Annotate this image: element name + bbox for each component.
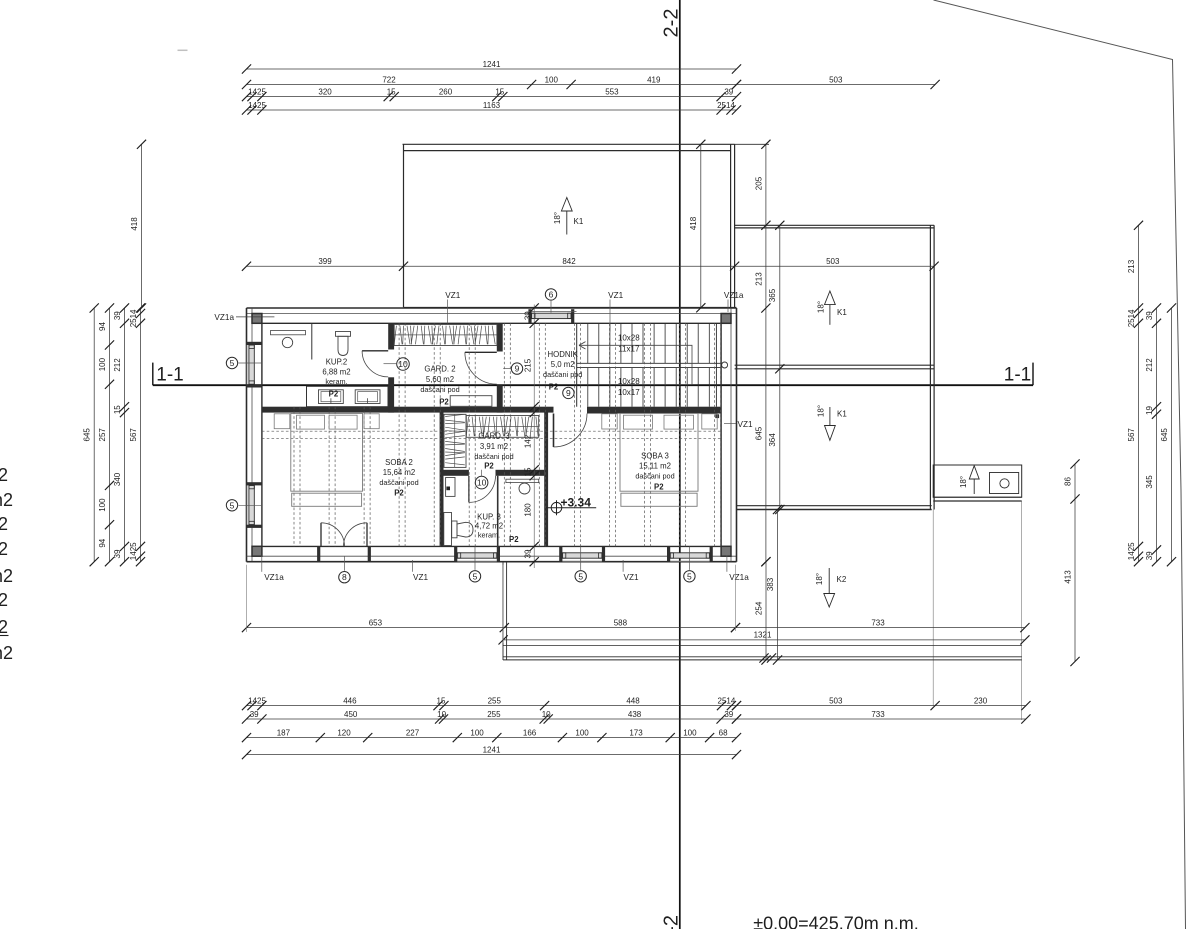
right wall drain circle xyxy=(722,362,728,368)
room label KUP2 xyxy=(322,358,350,387)
svg-text:503: 503 xyxy=(829,696,843,705)
KUP2 washer xyxy=(319,390,344,404)
dim row 653-588 bottom xyxy=(242,618,740,632)
svg-text:1163: 1163 xyxy=(483,101,501,110)
svg-text:567: 567 xyxy=(1127,428,1136,442)
terrace bottom double edge xyxy=(503,657,1022,660)
svg-text:645: 645 xyxy=(83,428,92,442)
dim row 399-842-503 xyxy=(242,257,939,271)
dim col 254 terrace xyxy=(754,557,770,665)
dim row A bottom right xyxy=(732,696,1031,710)
label VZ1a bottom left xyxy=(262,556,284,583)
legend fragment 4 xyxy=(0,539,8,559)
svg-text:2: 2 xyxy=(0,514,8,534)
window top 6 exterior sill xyxy=(529,310,577,312)
legend fragment 1 xyxy=(0,465,8,485)
legend fragment 2 xyxy=(0,490,13,510)
legend fragment 8 xyxy=(0,643,13,663)
svg-text:446: 446 xyxy=(343,696,357,705)
balloon 5 left upper xyxy=(226,357,262,368)
svg-text:8: 8 xyxy=(342,572,347,582)
window bottom 3 (balloon 5) xyxy=(667,546,713,561)
roof arrow K1 annex upper xyxy=(817,291,848,325)
svg-text:503: 503 xyxy=(826,257,840,266)
balcony double door 8 right leaf xyxy=(366,523,368,547)
svg-text:9: 9 xyxy=(515,364,520,374)
svg-text:5: 5 xyxy=(473,571,478,581)
KUP2 mirror shelf xyxy=(271,331,306,335)
section label 1-1 right xyxy=(1004,365,1031,386)
room label P2 KUP3 xyxy=(509,535,519,544)
roof projection dashed vertical lines xyxy=(294,323,721,546)
svg-text:205: 205 xyxy=(754,176,763,190)
svg-text:1-1: 1-1 xyxy=(1004,365,1031,386)
room label P2 GARD3 xyxy=(484,461,494,470)
svg-text:39: 39 xyxy=(523,311,532,320)
GARD2 dresser xyxy=(450,396,492,407)
dim row 722-100-419 xyxy=(242,75,741,89)
staircase right boundary xyxy=(715,323,717,406)
svg-text:2-2: 2-2 xyxy=(661,9,683,38)
balloon 8 balcony door xyxy=(339,556,350,583)
extension line plan bottom left corner xyxy=(246,565,248,632)
svg-text:842: 842 xyxy=(562,257,576,266)
dim row C bottom xyxy=(242,728,741,742)
svg-text:2: 2 xyxy=(0,590,8,610)
svg-text:120: 120 xyxy=(337,728,351,737)
wall corner block top left xyxy=(252,314,262,324)
staircase risers xyxy=(588,323,710,406)
svg-text:daščani pod: daščani pod xyxy=(543,370,582,379)
label VZ1 bottom 2 xyxy=(623,560,639,582)
legend fragment 3 xyxy=(0,514,8,534)
svg-text:15: 15 xyxy=(387,87,396,96)
dim row inner face top xyxy=(242,101,741,115)
roof K2 annex bottom double edge xyxy=(737,506,932,510)
svg-text:18°: 18° xyxy=(553,212,562,224)
door 10 KUP3 swing arc xyxy=(469,476,496,503)
door 9 GARD2 swing arc xyxy=(465,352,497,384)
svg-text:255: 255 xyxy=(488,696,502,705)
svg-text:VZ1a: VZ1a xyxy=(724,291,744,300)
svg-text:213: 213 xyxy=(1127,259,1136,273)
svg-text:320: 320 xyxy=(318,87,332,96)
dim col layers right xyxy=(1127,221,1143,567)
balloon 5 bottom 1 xyxy=(469,547,480,583)
svg-text:1425: 1425 xyxy=(129,542,138,560)
window left upper (balloon 5) xyxy=(247,342,262,388)
svg-text:2: 2 xyxy=(0,539,8,559)
door 10 KUP2 swing arc xyxy=(362,351,388,377)
svg-text:413: 413 xyxy=(1063,570,1072,584)
wall corner block bottom left xyxy=(252,546,262,556)
dim row 503 top right xyxy=(732,75,940,89)
svg-text:227: 227 xyxy=(406,728,420,737)
svg-text:10: 10 xyxy=(477,478,487,488)
roof arrow K1 annex lower xyxy=(817,405,848,440)
extension line terrace left xyxy=(502,565,504,643)
dim col rooms left xyxy=(113,303,129,566)
svg-text:15: 15 xyxy=(113,405,122,414)
roof K1 left edge xyxy=(403,144,405,307)
terrace upper edge line xyxy=(503,645,1022,647)
section line 1-1 horizontal xyxy=(153,363,1033,386)
dim col 645 right xyxy=(1160,303,1176,566)
svg-text:daščani pod: daščani pod xyxy=(420,385,459,394)
svg-text:15: 15 xyxy=(437,696,446,705)
legend fragment 6 xyxy=(0,590,8,610)
label VZ1 bottom 1 xyxy=(412,560,428,582)
svg-text:1241: 1241 xyxy=(483,60,501,69)
dim col 645 left xyxy=(83,303,99,566)
svg-text:9: 9 xyxy=(566,388,571,398)
svg-text:215: 215 xyxy=(523,358,532,372)
wall KUP2-GARD2 lower segment xyxy=(388,386,394,413)
room label GARD2 xyxy=(420,365,459,394)
SOBA2 nightstand right xyxy=(364,414,379,429)
svg-text:2: 2 xyxy=(0,617,8,637)
svg-text:P2: P2 xyxy=(484,461,494,470)
svg-text:2514: 2514 xyxy=(129,309,138,327)
staircase walk line with arrow xyxy=(579,342,692,385)
wall GARD3-SOBA3 vertical xyxy=(544,412,548,546)
room label HODNIK xyxy=(543,350,582,379)
dim col 205-213-645 xyxy=(754,140,770,567)
balcony double door 8 left leaf xyxy=(320,523,322,547)
svg-text:39: 39 xyxy=(724,710,733,719)
svg-text:260: 260 xyxy=(439,87,453,96)
svg-text:10x28: 10x28 xyxy=(618,333,640,342)
svg-text:1425: 1425 xyxy=(248,87,266,96)
svg-text:keram.: keram. xyxy=(325,377,347,386)
wall GARD3-KUP3 horizontal xyxy=(444,470,545,476)
svg-text:10x17: 10x17 xyxy=(618,388,640,397)
svg-text:10: 10 xyxy=(542,710,551,719)
svg-text:K1: K1 xyxy=(574,217,584,226)
svg-text:VZ1: VZ1 xyxy=(608,291,623,300)
svg-text:15: 15 xyxy=(495,87,504,96)
svg-text:SOBA 3: SOBA 3 xyxy=(641,451,669,460)
svg-text:567: 567 xyxy=(129,428,138,442)
svg-text:GARD. 3: GARD. 3 xyxy=(478,432,509,441)
room label GARD3 xyxy=(474,432,513,462)
window top 6 jambs xyxy=(528,309,574,323)
svg-text:P2: P2 xyxy=(654,483,664,492)
svg-text:39: 39 xyxy=(1145,311,1154,320)
balloon 10 KUP2 door xyxy=(384,358,410,371)
svg-text:254: 254 xyxy=(754,601,763,615)
KUP2 toilet xyxy=(336,332,351,356)
roof K1 eave bottom edge xyxy=(404,306,737,308)
section line 2-2 vertical xyxy=(679,0,681,929)
wall exterior left inner line xyxy=(261,323,263,546)
dim row B bottom xyxy=(242,710,741,724)
svg-text:m2: m2 xyxy=(0,566,13,586)
svg-text:daščani pod: daščani pod xyxy=(474,452,513,461)
svg-text:39: 39 xyxy=(523,549,532,558)
label VZ1 right wall xyxy=(724,420,753,429)
wall GARD2-HODNIK upper segment xyxy=(497,323,503,351)
glass partition KUP3 xyxy=(497,476,499,547)
svg-text:4,72 m2: 4,72 m2 xyxy=(475,522,503,531)
KUP2 washbasin circle xyxy=(282,337,292,347)
svg-text:VZ1: VZ1 xyxy=(445,291,460,300)
legend fragment 7 xyxy=(0,617,9,637)
svg-text:m2: m2 xyxy=(0,643,13,663)
svg-text:18°: 18° xyxy=(815,573,824,585)
wall horizontal corridor-south right part xyxy=(587,407,721,414)
newel post xyxy=(715,414,719,418)
svg-text:100: 100 xyxy=(545,75,559,84)
svg-text:5: 5 xyxy=(230,500,235,510)
dim col rooms right xyxy=(1145,303,1161,566)
staircase flight separation lines xyxy=(577,363,721,367)
svg-text:15,11 m2: 15,11 m2 xyxy=(639,461,671,470)
dim col layers left xyxy=(129,303,145,566)
svg-text:1425: 1425 xyxy=(248,696,266,705)
svg-text:2514: 2514 xyxy=(717,101,735,110)
svg-text:39: 39 xyxy=(113,311,122,320)
dim col 418 right xyxy=(689,140,705,313)
wall exterior bottom outer line xyxy=(247,561,737,563)
svg-text:18°: 18° xyxy=(959,476,968,488)
svg-text:588: 588 xyxy=(614,618,628,627)
wall exterior right outer line xyxy=(736,308,738,562)
legend fragment 5 xyxy=(0,566,13,586)
svg-text:39: 39 xyxy=(724,87,733,96)
dim row B bottom right xyxy=(732,710,1031,724)
svg-text:5: 5 xyxy=(578,571,583,581)
roof K2 annex right double edge xyxy=(930,225,934,509)
roof K1 eave extension right xyxy=(735,143,769,145)
svg-text:212: 212 xyxy=(1145,358,1154,372)
svg-text:2: 2 xyxy=(0,465,8,485)
svg-text:VZ1a: VZ1a xyxy=(264,573,284,582)
room label P2 SOBA2 xyxy=(394,489,404,498)
KUP2 counter xyxy=(307,386,389,406)
svg-text:15: 15 xyxy=(523,467,532,476)
dim row 1241 top xyxy=(242,60,741,74)
dim col 418 left xyxy=(130,140,146,313)
terrace break marks xyxy=(759,653,776,662)
svg-text:100: 100 xyxy=(575,728,589,737)
elevation marker +3.34 xyxy=(546,495,596,515)
terrace left double edge xyxy=(503,562,507,660)
label VZ1a top right xyxy=(724,291,744,312)
balloon 9 GARD2 door xyxy=(503,363,523,374)
dim row wall layout top xyxy=(242,87,741,101)
extension line from roof corner down xyxy=(932,510,934,707)
wall KUP2-GARD2 door stub xyxy=(388,377,394,385)
svg-text:733: 733 xyxy=(871,618,885,627)
KUP3 low cabinet xyxy=(444,513,452,546)
wall exterior left layer line xyxy=(251,308,253,562)
svg-text:18°: 18° xyxy=(817,405,826,417)
svg-text:6: 6 xyxy=(549,289,554,299)
GARD2 wardrobe hatched xyxy=(394,325,497,346)
balloon 5 bottom 2 xyxy=(575,547,586,583)
wall exterior top layer line xyxy=(247,313,737,315)
SOBA3 nightstand left xyxy=(602,414,617,429)
svg-text:230: 230 xyxy=(974,696,988,705)
room label P2 KUP2 xyxy=(329,390,339,399)
svg-text:257: 257 xyxy=(98,428,107,442)
svg-text:383: 383 xyxy=(766,577,775,591)
roof K2 annex mid double edge xyxy=(735,365,935,369)
svg-text:HODNIK: HODNIK xyxy=(548,350,579,359)
svg-text:100: 100 xyxy=(470,728,484,737)
svg-text:10x28: 10x28 xyxy=(618,377,640,386)
svg-text:448: 448 xyxy=(626,696,640,705)
svg-text:2514: 2514 xyxy=(1127,309,1136,327)
svg-text:86: 86 xyxy=(1063,477,1072,486)
svg-text:2-2: 2-2 xyxy=(661,915,683,929)
svg-text:1425: 1425 xyxy=(248,101,266,110)
svg-text:2514: 2514 xyxy=(718,696,736,705)
GARD3 wardrobe top hatched xyxy=(466,416,538,438)
window bottom 1 (balloon 5) xyxy=(454,546,500,561)
wall corner block bottom right xyxy=(721,546,731,556)
svg-text:722: 722 xyxy=(382,75,396,84)
svg-text:5: 5 xyxy=(230,358,235,368)
dim col 365-364 xyxy=(768,221,784,514)
svg-text:212: 212 xyxy=(113,358,122,372)
svg-text:±0.00=425.70m n.m.: ±0.00=425.70m n.m. xyxy=(753,914,918,929)
dim row 733 bottom xyxy=(731,618,1030,632)
svg-text:187: 187 xyxy=(277,728,291,737)
label VZ1a top left xyxy=(214,313,274,322)
svg-text:VZ1: VZ1 xyxy=(738,420,753,429)
svg-text:10: 10 xyxy=(398,359,408,369)
extension line from chimney down xyxy=(1021,501,1023,720)
chimney slope arrow 18deg xyxy=(959,466,979,494)
svg-text:653: 653 xyxy=(369,618,383,627)
dim row 1321 bottom xyxy=(499,631,1030,645)
balcony double door 8 right arc xyxy=(344,523,368,547)
label VZ1 top 1 xyxy=(445,291,460,324)
KUP3 vanity counter xyxy=(506,479,539,482)
dim col windows left xyxy=(98,303,114,566)
svg-text:5,0 m2: 5,0 m2 xyxy=(551,360,575,369)
balloon 6 top window xyxy=(545,289,556,313)
window bottom 2 (balloon 5) xyxy=(559,546,605,561)
dim chain interior x534 xyxy=(523,303,538,568)
svg-text:100: 100 xyxy=(98,498,107,512)
svg-text:KUP. 3: KUP. 3 xyxy=(477,513,501,522)
SOBA3 nightstand right xyxy=(702,414,717,429)
wall corner block top right xyxy=(721,314,731,324)
chimney bottom double line xyxy=(933,497,1022,501)
KUP3 washbasin circle xyxy=(519,483,530,494)
svg-text:213: 213 xyxy=(754,272,763,286)
svg-text:+3.34: +3.34 xyxy=(561,495,592,509)
svg-text:P2: P2 xyxy=(439,398,449,407)
svg-text:P2: P2 xyxy=(549,382,559,391)
svg-text:10: 10 xyxy=(437,710,446,719)
staircase outline xyxy=(576,323,578,406)
svg-text:VZ1a: VZ1a xyxy=(214,313,234,322)
dim row 1241 bottom xyxy=(242,745,741,759)
roof arrow K1 main xyxy=(553,198,584,235)
svg-text:100: 100 xyxy=(683,728,697,737)
svg-text:m2: m2 xyxy=(0,490,13,510)
svg-text:1425: 1425 xyxy=(1127,542,1136,560)
svg-text:1-1: 1-1 xyxy=(156,365,183,386)
section label 1-1 left xyxy=(156,365,183,386)
svg-text:18°: 18° xyxy=(817,301,826,313)
label VZ1 top 2 xyxy=(608,291,623,332)
svg-text:1321: 1321 xyxy=(754,631,772,640)
svg-text:1241: 1241 xyxy=(483,745,501,754)
GARD3 wardrobe left hatched xyxy=(444,414,466,467)
wall exterior bottom layer line xyxy=(247,555,737,557)
room label KUP3 xyxy=(475,513,503,540)
svg-text:SOBA 2: SOBA 2 xyxy=(385,458,413,467)
svg-text:173: 173 xyxy=(629,728,643,737)
svg-text:68: 68 xyxy=(719,728,728,737)
svg-text:94: 94 xyxy=(98,538,107,547)
wall KUP2-GARD2 upper segment xyxy=(388,323,394,349)
svg-text:39: 39 xyxy=(1145,551,1154,560)
property boundary line top right xyxy=(934,0,1186,929)
svg-text:K1: K1 xyxy=(837,308,847,317)
svg-text:keram.: keram. xyxy=(478,530,500,539)
svg-text:VZ1: VZ1 xyxy=(413,573,428,582)
staircase label upper xyxy=(618,333,640,353)
svg-text:5,60 m2: 5,60 m2 xyxy=(426,375,454,384)
wall exterior bottom inner line xyxy=(262,545,721,547)
KUP3 toilet xyxy=(452,521,473,538)
wall SOBA2-GARD3 vertical xyxy=(440,412,444,546)
svg-text:450: 450 xyxy=(344,710,358,719)
balloon 9 SOBA3 door xyxy=(563,387,574,398)
KUP2 shower partition xyxy=(311,323,313,359)
section label 2-2 top xyxy=(661,9,683,38)
svg-text:100: 100 xyxy=(98,357,107,371)
extension line plan bottom right corner xyxy=(735,565,737,631)
svg-text:K1: K1 xyxy=(837,410,847,419)
svg-text:645: 645 xyxy=(754,426,763,440)
svg-text:39: 39 xyxy=(250,710,259,719)
svg-text:166: 166 xyxy=(523,728,537,737)
roof arrow K2 terrace xyxy=(815,568,847,607)
svg-text:P2: P2 xyxy=(509,535,519,544)
dim row A bottom xyxy=(242,696,741,710)
door 10 KUP2 leaf xyxy=(362,350,388,352)
SOBA3 bed xyxy=(620,413,698,506)
svg-text:K2: K2 xyxy=(837,575,847,584)
svg-text:GARD. 2: GARD. 2 xyxy=(424,365,455,374)
svg-text:39: 39 xyxy=(113,549,122,558)
wall exterior right inner line xyxy=(720,323,722,546)
balcony double door 8 left arc xyxy=(321,523,345,547)
balloon 5 left lower xyxy=(226,500,262,511)
room label P2 HODNIK xyxy=(549,382,559,391)
svg-text:503: 503 xyxy=(829,75,843,84)
svg-text:3,91 m2: 3,91 m2 xyxy=(480,442,508,451)
svg-text:15,64 m2: 15,64 m2 xyxy=(383,468,416,477)
chimney block outline xyxy=(933,465,1022,497)
svg-text:142: 142 xyxy=(523,434,532,448)
svg-text:KUP.2: KUP.2 xyxy=(326,358,348,367)
wall GARD2-HODNIK lower stub xyxy=(497,385,503,412)
svg-text:438: 438 xyxy=(628,710,642,719)
svg-text:364: 364 xyxy=(768,433,777,447)
svg-text:419: 419 xyxy=(647,75,661,84)
door 10 KUP3 leaf xyxy=(468,476,470,503)
svg-text:418: 418 xyxy=(130,217,139,231)
balloon 10 KUP3 door xyxy=(475,470,488,489)
